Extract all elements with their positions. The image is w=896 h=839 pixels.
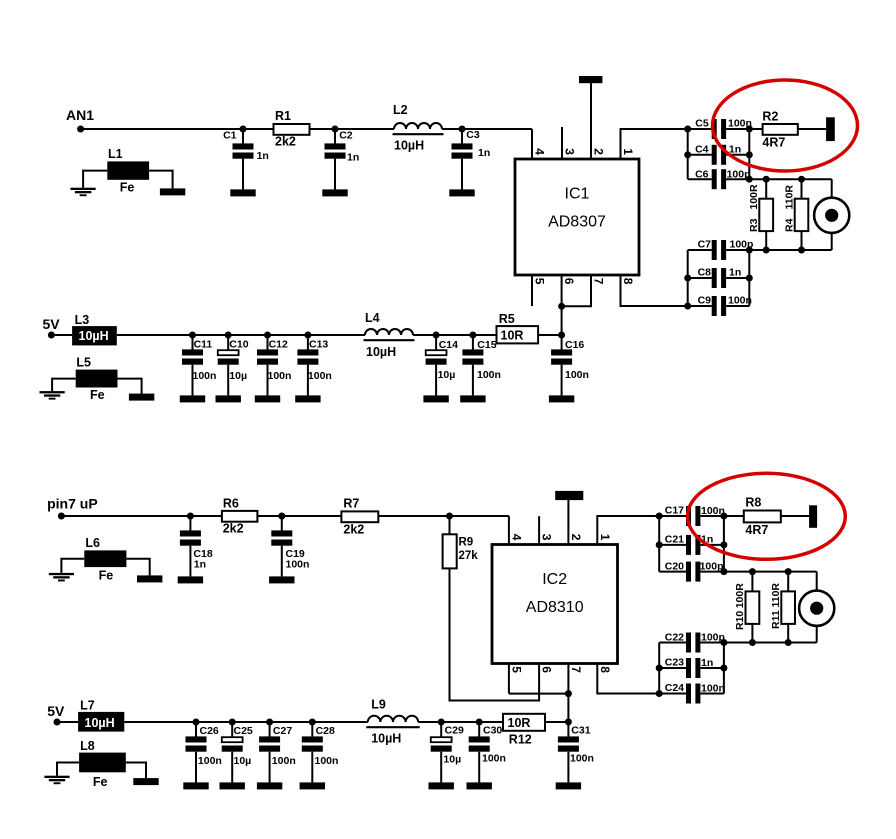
svg-text:R6: R6 [223, 497, 239, 511]
svg-text:10R: 10R [501, 329, 524, 343]
svg-text:5: 5 [533, 278, 547, 285]
svg-text:C28: C28 [316, 725, 335, 737]
svg-text:C26: C26 [200, 725, 219, 737]
svg-text:110R: 110R [770, 583, 782, 608]
svg-text:C14: C14 [439, 339, 458, 351]
svg-text:Fe: Fe [99, 569, 114, 583]
svg-text:C20: C20 [665, 560, 684, 572]
svg-text:10µ: 10µ [443, 754, 461, 766]
svg-text:10µH: 10µH [366, 345, 396, 359]
svg-text:R12: R12 [509, 733, 532, 747]
svg-text:100p: 100p [701, 632, 725, 644]
svg-text:pin7 uP: pin7 uP [47, 495, 98, 511]
svg-text:R3: R3 [748, 218, 760, 232]
svg-text:C17: C17 [665, 505, 684, 517]
svg-text:2: 2 [592, 148, 606, 155]
svg-text:10R: 10R [508, 716, 531, 730]
svg-text:1n: 1n [347, 152, 359, 164]
svg-text:10µ: 10µ [234, 755, 252, 767]
svg-text:L8: L8 [80, 739, 95, 753]
svg-text:1n: 1n [701, 657, 713, 669]
svg-text:100n: 100n [315, 755, 339, 767]
svg-text:1: 1 [598, 534, 612, 541]
svg-text:C31: C31 [571, 725, 590, 737]
svg-text:C27: C27 [273, 725, 292, 737]
svg-text:C3: C3 [466, 129, 480, 141]
svg-text:2k2: 2k2 [343, 523, 364, 537]
svg-text:Fe: Fe [90, 388, 105, 402]
svg-text:100n: 100n [728, 118, 752, 130]
svg-text:1n: 1n [729, 267, 741, 279]
svg-text:3: 3 [540, 534, 554, 541]
svg-text:C6: C6 [695, 168, 709, 180]
svg-text:C5: C5 [695, 117, 709, 129]
svg-text:R2: R2 [762, 110, 778, 124]
svg-text:100n: 100n [482, 752, 506, 764]
svg-text:L5: L5 [76, 356, 91, 370]
svg-text:C12: C12 [269, 339, 288, 351]
svg-text:100p: 100p [727, 169, 751, 181]
svg-text:27k: 27k [459, 550, 479, 562]
svg-text:100n: 100n [308, 370, 332, 382]
svg-text:100n: 100n [268, 370, 292, 382]
svg-text:Fe: Fe [120, 181, 135, 195]
svg-text:10µH: 10µH [371, 732, 401, 746]
svg-text:8: 8 [621, 278, 635, 285]
svg-text:2k2: 2k2 [223, 522, 244, 536]
svg-text:R7: R7 [343, 497, 359, 511]
svg-text:C15: C15 [477, 339, 496, 351]
svg-text:C21: C21 [665, 533, 684, 545]
svg-text:C29: C29 [445, 725, 464, 737]
svg-text:IC2: IC2 [542, 571, 567, 588]
svg-text:C4: C4 [695, 143, 709, 155]
svg-text:7: 7 [592, 278, 606, 285]
svg-text:C25: C25 [234, 725, 253, 737]
svg-text:10µ: 10µ [229, 370, 247, 382]
svg-text:100n: 100n [701, 505, 725, 517]
svg-text:10µH: 10µH [85, 716, 115, 730]
svg-text:100n: 100n [570, 752, 594, 764]
svg-text:100n: 100n [193, 370, 217, 382]
svg-text:4: 4 [510, 534, 524, 541]
svg-text:C8: C8 [698, 266, 712, 278]
svg-text:C22: C22 [665, 631, 684, 643]
svg-text:R1: R1 [275, 109, 291, 123]
svg-text:R11: R11 [770, 610, 782, 629]
svg-text:R5: R5 [499, 312, 515, 326]
svg-text:4R7: 4R7 [762, 136, 785, 150]
svg-text:L2: L2 [393, 103, 408, 117]
svg-text:1n: 1n [194, 559, 206, 571]
svg-text:100n: 100n [728, 295, 752, 307]
svg-text:R4: R4 [783, 218, 795, 232]
svg-text:4: 4 [533, 148, 547, 155]
svg-text:R8: R8 [745, 496, 761, 510]
svg-text:AD8310: AD8310 [526, 599, 584, 616]
svg-text:100R: 100R [734, 583, 746, 609]
svg-text:C9: C9 [698, 294, 712, 306]
svg-text:C1: C1 [223, 129, 237, 141]
svg-text:10µH: 10µH [79, 329, 109, 343]
svg-text:C2: C2 [339, 130, 353, 142]
svg-text:L9: L9 [371, 698, 386, 712]
svg-text:5V: 5V [47, 703, 65, 719]
svg-text:100p: 100p [730, 239, 754, 251]
svg-text:5: 5 [510, 666, 524, 673]
svg-text:C10: C10 [229, 339, 248, 351]
svg-text:100n: 100n [272, 755, 296, 767]
svg-text:L1: L1 [108, 147, 123, 161]
svg-text:100n: 100n [198, 755, 222, 767]
svg-text:8: 8 [598, 666, 612, 673]
svg-text:3: 3 [563, 148, 577, 155]
svg-text:1: 1 [621, 148, 635, 155]
svg-text:L4: L4 [365, 311, 380, 325]
svg-text:1n: 1n [478, 147, 490, 159]
svg-text:10µ: 10µ [438, 369, 456, 381]
svg-text:2: 2 [569, 534, 583, 541]
svg-text:R10: R10 [734, 611, 746, 630]
svg-text:4R7: 4R7 [745, 523, 768, 537]
svg-text:10µH: 10µH [394, 139, 424, 153]
svg-text:C7: C7 [698, 238, 712, 250]
svg-text:R9: R9 [459, 537, 474, 549]
svg-text:100p: 100p [700, 561, 724, 573]
svg-text:IC1: IC1 [565, 186, 590, 203]
svg-text:100n: 100n [701, 682, 725, 694]
svg-text:100R: 100R [748, 184, 760, 210]
svg-text:C16: C16 [565, 339, 584, 351]
svg-text:Fe: Fe [93, 775, 108, 789]
svg-text:1n: 1n [257, 150, 269, 162]
svg-text:L7: L7 [80, 699, 95, 713]
svg-text:AD8307: AD8307 [548, 214, 606, 231]
svg-text:C24: C24 [665, 682, 684, 694]
svg-text:7: 7 [569, 666, 583, 673]
svg-text:AN1: AN1 [66, 107, 94, 123]
svg-text:C23: C23 [665, 657, 684, 669]
svg-text:100n: 100n [286, 559, 310, 571]
svg-text:L6: L6 [85, 536, 100, 550]
svg-text:110R: 110R [783, 185, 795, 210]
svg-text:5V: 5V [43, 316, 61, 332]
svg-text:100n: 100n [477, 369, 501, 381]
svg-text:100n: 100n [565, 369, 589, 381]
svg-text:L3: L3 [75, 313, 90, 327]
svg-text:6: 6 [540, 666, 554, 673]
svg-text:6: 6 [562, 278, 576, 285]
svg-text:2k2: 2k2 [275, 135, 296, 149]
svg-text:C13: C13 [309, 339, 328, 351]
svg-text:C30: C30 [483, 725, 502, 737]
svg-text:C11: C11 [194, 339, 213, 351]
